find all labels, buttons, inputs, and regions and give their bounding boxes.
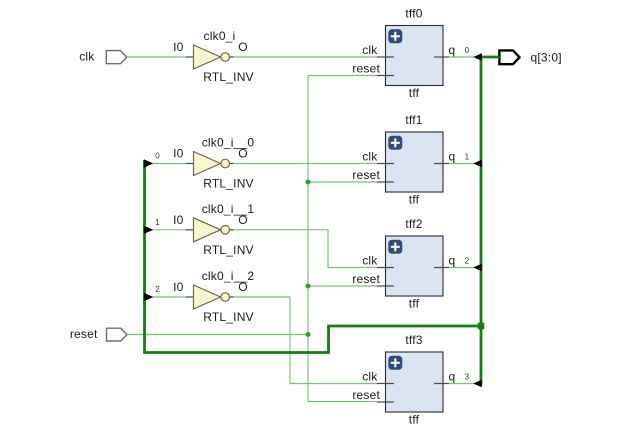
flip-flop tff2 (tff) (386, 236, 444, 296)
inverter U2 clk0_i__0 (RTL_INV) (186, 152, 234, 176)
svg-text:RTL_INV: RTL_INV (203, 177, 254, 191)
branch arrow bit 1 on left rail (144, 226, 153, 234)
pin stub reset of tff0 (377, 75, 394, 77)
junction dot reset/tff2 (306, 284, 311, 289)
pin stub q of tff1 (434, 163, 449, 165)
svg-text:2: 2 (155, 285, 160, 294)
bus wire junction to output port (481, 56, 499, 59)
q bit 2 arrow into bus (473, 264, 482, 272)
svg-text:I0: I0 (173, 280, 184, 294)
svg-text:1: 1 (465, 153, 470, 162)
wire reset branch to tff1 reset pin (308, 181, 377, 183)
svg-text:O: O (238, 280, 248, 294)
svg-text:3: 3 (465, 373, 470, 382)
svg-text:1: 1 (155, 218, 160, 227)
wire reset net vertical trunk (307, 76, 309, 402)
svg-text:0: 0 (465, 46, 470, 55)
pin stub reset of tff1 (377, 181, 394, 183)
svg-text:O: O (238, 40, 248, 54)
input port reset (107, 328, 128, 341)
wire reset net horizontal from reset port (127, 334, 308, 336)
q bit 0 arrow into bus (473, 53, 482, 61)
q bit 3 arrow into bus (473, 380, 482, 388)
svg-text:RTL_INV: RTL_INV (203, 243, 254, 257)
pin stub q of tff0 (434, 56, 449, 58)
svg-text:reset: reset (352, 62, 380, 76)
wire bus bit2 branch to inverter clk0_i__2 input (152, 296, 186, 298)
svg-text:tff2: tff2 (405, 217, 422, 231)
wire reset branch to tff0 reset pin (308, 75, 377, 77)
svg-text:O: O (238, 147, 248, 161)
svg-text:clk: clk (362, 150, 378, 164)
wire tff1 q to bus junction (449, 163, 474, 165)
svg-text:q: q (449, 254, 456, 268)
wire reset branch to tff3 reset pin (308, 401, 377, 403)
input port clk (106, 51, 127, 64)
pin stub reset of tff2 (377, 285, 394, 287)
svg-text:tff0: tff0 (405, 7, 422, 21)
svg-text:tff1: tff1 (405, 113, 422, 127)
pin stub q of tff2 (434, 267, 449, 269)
wire tff2 q to bus junction (449, 267, 474, 269)
wire inverter clk0_i__0 output to tff1 clk pin (233, 163, 377, 165)
wire reset branch to tff2 reset pin (308, 285, 377, 287)
svg-text:0: 0 (155, 152, 160, 161)
flip-flop tff3 (tff) (386, 352, 444, 412)
branch arrow bit 2 on left rail (144, 293, 153, 301)
wire clk port to inverter clk0_i input (127, 56, 186, 58)
svg-text:reset: reset (352, 168, 380, 182)
expand icon (+) of tff2 (388, 240, 402, 254)
svg-text:q: q (449, 150, 456, 164)
inverter U1 clk0_i (RTL_INV) (186, 45, 234, 69)
svg-text:reset: reset (352, 272, 380, 286)
expand icon (+) of tff3 (388, 356, 402, 370)
svg-text:tff: tff (409, 86, 420, 100)
svg-text:2: 2 (465, 257, 470, 266)
wire tff3 q to bus junction (449, 383, 474, 385)
junction dot reset/tff1 (306, 180, 311, 185)
svg-text:tff3: tff3 (405, 333, 422, 347)
pin stub reset of tff3 (377, 401, 394, 403)
svg-text:reset: reset (352, 388, 380, 402)
svg-text:reset: reset (70, 327, 98, 341)
pin stub clk of tff1 (377, 163, 394, 165)
expand icon (+) of tff0 (388, 29, 402, 43)
flip-flop tff1 (tff) (386, 132, 444, 192)
bus feedback path to left rail (145, 160, 482, 353)
svg-text:clk: clk (79, 50, 95, 64)
svg-text:clk: clk (362, 43, 378, 57)
svg-text:tff: tff (409, 193, 420, 207)
svg-text:q[3:0]: q[3:0] (531, 51, 562, 65)
bus q[3:0] vertical trunk (480, 57, 483, 385)
q bit 1 arrow into bus (473, 160, 482, 168)
wire inverter clk0_i output to tff0 clk pin (233, 56, 377, 58)
svg-text:I0: I0 (173, 213, 184, 227)
svg-text:q: q (449, 43, 456, 57)
svg-text:O: O (238, 213, 248, 227)
pin stub clk of tff0 (377, 56, 394, 58)
svg-text:q: q (449, 370, 456, 384)
pin stub q of tff3 (434, 383, 449, 385)
svg-text:I0: I0 (173, 40, 184, 54)
bus junction dot (478, 323, 485, 330)
wire bus bit1 branch to inverter clk0_i__1 input (152, 229, 186, 231)
branch arrow bit 0 on left rail (144, 159, 153, 167)
inverter U4 clk0_i__2 (RTL_INV) (186, 285, 234, 309)
wire inverter clk0_i__2 output to tff3 clk pin (with jog) (233, 297, 377, 384)
pin stub clk of tff3 (377, 383, 394, 385)
pin stub clk of tff2 (377, 267, 394, 269)
svg-text:RTL_INV: RTL_INV (203, 70, 254, 84)
expand icon (+) of tff1 (388, 136, 402, 150)
svg-text:clk: clk (362, 370, 378, 384)
inverter U3 clk0_i__1 (RTL_INV) (186, 218, 234, 242)
wire bus bit0 branch to inverter clk0_i__0 input (152, 163, 186, 165)
svg-text:clk0_i: clk0_i (204, 29, 236, 43)
output port q[3:0] (499, 50, 519, 64)
svg-text:I0: I0 (173, 147, 184, 161)
svg-text:tff: tff (409, 297, 420, 311)
flip-flop tff0 (tff) (386, 26, 444, 86)
wire inverter clk0_i__1 output to tff2 clk pin (with jog) (233, 230, 377, 268)
svg-text:clk: clk (362, 254, 378, 268)
svg-text:RTL_INV: RTL_INV (203, 310, 254, 324)
wire tff0 q to bus junction (449, 56, 474, 58)
junction dot reset port join (306, 332, 311, 337)
svg-text:tff: tff (409, 413, 420, 427)
